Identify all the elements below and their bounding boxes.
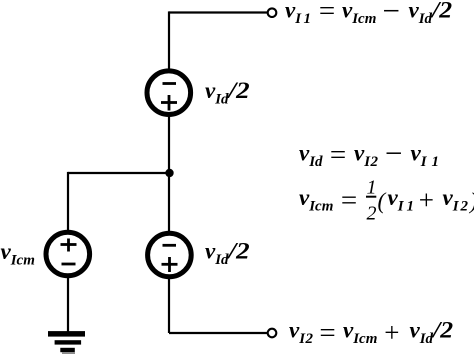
svg-text:vI2: vI2	[289, 318, 314, 348]
svg-text:vId/2: vId/2	[410, 318, 454, 348]
svg-text:+: +	[383, 318, 401, 348]
svg-text:vI1: vI1	[388, 185, 418, 215]
svg-text:vId/2: vId/2	[409, 0, 453, 27]
svg-text:=: =	[317, 0, 337, 27]
svg-text:vI2: vI2	[443, 185, 471, 215]
svg-text:=: =	[339, 185, 359, 217]
svg-text:vIcm: vIcm	[299, 185, 333, 215]
svg-text:vI2: vI2	[354, 141, 379, 171]
svg-text:vIcm: vIcm	[343, 318, 377, 348]
svg-text:+: +	[417, 185, 435, 215]
svg-text:vId: vId	[299, 141, 323, 171]
svg-text:vId/2: vId/2	[205, 239, 250, 269]
svg-text:vId/2: vId/2	[205, 78, 250, 108]
svg-text:1: 1	[367, 177, 377, 199]
svg-text:=: =	[328, 139, 348, 171]
svg-text:vI1: vI1	[411, 141, 445, 171]
svg-text:(: (	[378, 189, 387, 214]
svg-text:−: −	[383, 136, 404, 171]
svg-text:vI1: vI1	[285, 0, 314, 27]
svg-text:−: −	[381, 0, 402, 28]
svg-text:2: 2	[367, 203, 377, 225]
svg-text:vIcm: vIcm	[342, 0, 376, 27]
svg-text:vIcm: vIcm	[1, 239, 35, 269]
svg-text:=: =	[318, 317, 338, 349]
